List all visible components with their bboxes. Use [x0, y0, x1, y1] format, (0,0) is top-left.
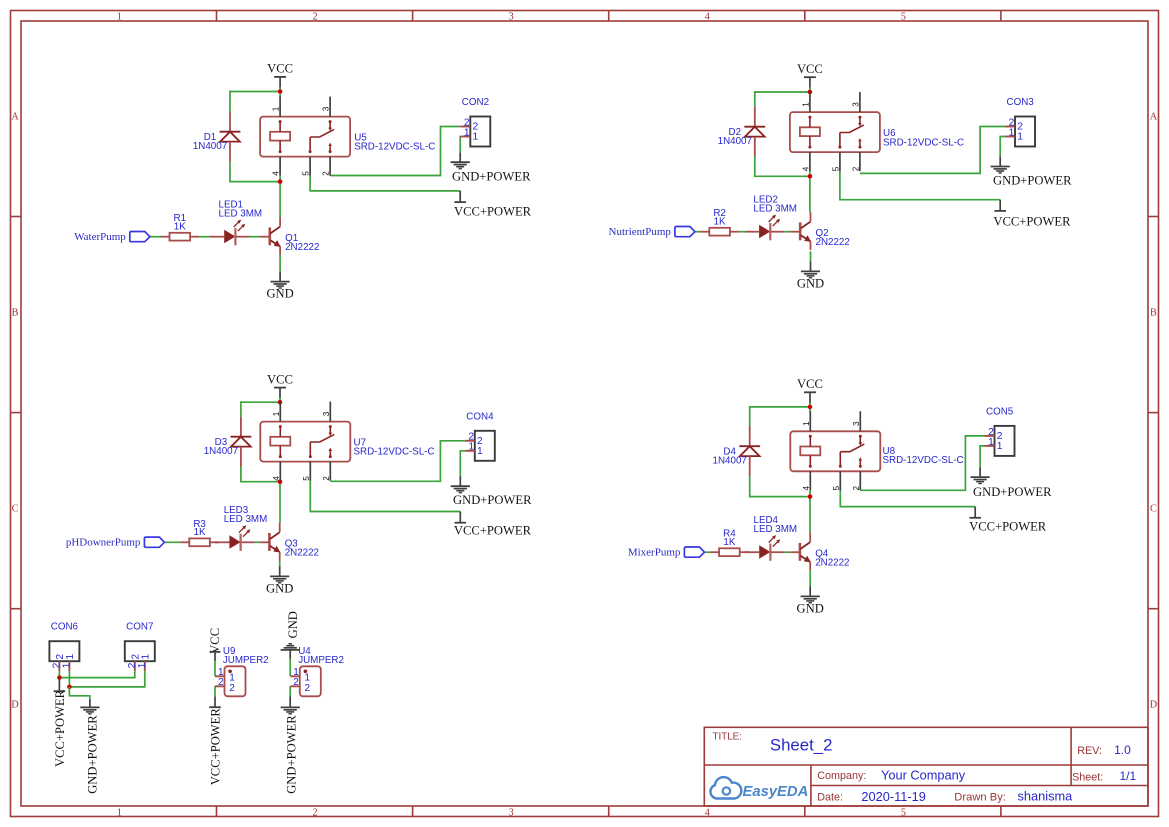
relay U8 pin 5: [832, 471, 841, 490]
junction node U6 pin 4/D2/Q2: [808, 174, 813, 179]
svg-text:GND: GND: [797, 601, 824, 615]
wire VCC node to diode D2 (horizontal): [755, 91, 810, 93]
wire net flag to resistor R1: [150, 236, 161, 238]
wire U8 pin 5 to VCC+POWER: [840, 489, 975, 506]
svg-text:Your Company: Your Company: [881, 767, 966, 782]
svg-text:1: 1: [1009, 127, 1015, 138]
wire U7 pin 5 to VCC+POWER: [310, 480, 460, 512]
svg-text:C: C: [1150, 504, 1157, 515]
svg-text:VCC: VCC: [797, 62, 823, 76]
svg-text:3: 3: [852, 421, 861, 426]
relay U5 pin 4: [272, 157, 281, 176]
jumper U4 JUMPER2: [290, 646, 344, 696]
ground GND (Q3): [266, 566, 293, 595]
svg-text:VCC+POWER: VCC+POWER: [53, 689, 67, 767]
svg-text:pHDownerPump: pHDownerPump: [66, 537, 141, 549]
svg-text:CON5: CON5: [986, 407, 1014, 418]
EasyEDA logo: [710, 777, 808, 800]
wire CON6 pin 1 to CON7 pin 1: [69, 671, 144, 687]
wire Q1 emitter to GND: [279, 255, 281, 272]
svg-text:B: B: [1150, 308, 1157, 319]
junction node VCC/D3: [278, 400, 283, 405]
svg-text:SRD-12VDC-SL-C: SRD-12VDC-SL-C: [883, 138, 964, 149]
svg-text:JUMPER2: JUMPER2: [223, 655, 269, 666]
junction node VCC/D1: [278, 89, 283, 94]
wire VCC node to diode D1 (horizontal): [230, 91, 280, 93]
junction node VCC/D4: [808, 405, 813, 410]
svg-text:GND+POWER: GND+POWER: [453, 493, 532, 507]
wire resistor R2 to LED LED2: [739, 231, 745, 233]
wire VCC stub to U8 pin 1: [809, 401, 811, 412]
net flag GND+POWER (CON3) stem: [999, 157, 1001, 167]
svg-text:CON2: CON2: [462, 97, 489, 108]
power flag GND (U4, rotated text + inverted earth): [281, 611, 300, 659]
svg-text:CON3: CON3: [1007, 97, 1035, 108]
svg-text:VCC: VCC: [797, 377, 823, 391]
relay U6 pin 3: [852, 92, 861, 112]
svg-text:1: 1: [140, 654, 151, 660]
relay U5 labels: [354, 132, 435, 152]
ground GND (Q4): [797, 586, 824, 615]
net flag GND+POWER (CON5) stem: [979, 467, 981, 477]
connector CON4 2-pin header: [465, 411, 495, 460]
relay U5 pin 2: [322, 157, 331, 176]
svg-text:SRD-12VDC-SL-C: SRD-12VDC-SL-C: [354, 142, 435, 153]
junction VCC+POWER node: [57, 675, 62, 680]
svg-text:LED 3MM: LED 3MM: [224, 514, 268, 525]
svg-text:CON4: CON4: [466, 411, 494, 422]
wire diode D1 anode to node: [230, 161, 280, 181]
net flag GND+POWER (CON7 node) stem: [89, 700, 91, 708]
svg-text:4: 4: [802, 166, 811, 171]
wire VCC stub to U6 pin 1: [809, 87, 811, 94]
svg-text:1: 1: [988, 437, 994, 448]
net flag VCC+POWER (U8) stem: [974, 507, 976, 518]
svg-text:1: 1: [272, 411, 281, 416]
wire down to diode D3 cathode: [240, 401, 242, 417]
wire down to diode D2 cathode: [754, 91, 756, 107]
wire diode D2 anode to node: [755, 156, 810, 176]
svg-text:5: 5: [832, 166, 841, 171]
relay U7 labels: [354, 437, 435, 457]
relay U5: [260, 117, 350, 157]
net flag GND+POWER (CON7 node) earth symbol: [80, 707, 99, 713]
wire U6 pin 5 to VCC+POWER: [840, 170, 1000, 200]
power flag VCC (circuit 1): [267, 62, 293, 87]
svg-text:D: D: [1150, 700, 1157, 711]
svg-text:Drawn By:: Drawn By:: [954, 791, 1006, 803]
svg-text:A: A: [11, 112, 19, 123]
svg-text:TITLE:: TITLE:: [713, 731, 742, 742]
svg-text:GND+POWER: GND+POWER: [993, 174, 1072, 188]
svg-text:2020-11-19: 2020-11-19: [861, 789, 926, 804]
power flag VCC (circuit 4): [797, 377, 823, 402]
svg-text:1: 1: [477, 446, 483, 457]
ground GND (Q2): [797, 261, 824, 290]
net flag VCC+POWER (U5) stem: [459, 191, 461, 202]
svg-text:CON7: CON7: [126, 621, 153, 632]
wire VCC stub to U5 pin 1: [279, 86, 281, 98]
wire LED LED4 to Q4 base: [784, 551, 790, 553]
wire to GND+POWER flag: [69, 687, 90, 700]
wire VCC node to diode D4 (horizontal): [750, 406, 810, 408]
wire U8 pin 2 to CON5 pin 2: [860, 436, 984, 490]
wire VCC node to diode D3 (horizontal): [241, 401, 280, 403]
LED LED2 LED 3MM: [745, 194, 797, 240]
svg-text:1: 1: [473, 132, 479, 143]
svg-text:VCC+POWER: VCC+POWER: [454, 524, 532, 538]
resistor R1 1K: [161, 213, 200, 240]
svg-text:VCC+POWER: VCC+POWER: [969, 520, 1047, 534]
svg-text:2: 2: [305, 683, 311, 694]
relay U6 pin 2: [852, 152, 861, 171]
svg-text:LED 3MM: LED 3MM: [754, 524, 798, 535]
wire Q4 emitter to GND: [809, 570, 811, 586]
net flag VCC+POWER (CON6) stem: [58, 678, 60, 691]
svg-text:WaterPump: WaterPump: [74, 231, 126, 243]
svg-text:GND+POWER: GND+POWER: [452, 170, 531, 184]
svg-text:5: 5: [832, 486, 841, 491]
relay U5 pin 5: [302, 157, 311, 176]
power flag VCC (circuit 3): [267, 372, 293, 397]
LED LED1 LED 3MM: [210, 199, 262, 245]
svg-text:SRD-12VDC-SL-C: SRD-12VDC-SL-C: [354, 447, 435, 458]
svg-text:JUMPER2: JUMPER2: [298, 655, 344, 666]
svg-text:GND+POWER: GND+POWER: [284, 715, 298, 794]
relay U7 pin 2: [322, 462, 331, 481]
svg-text:Sheet_2: Sheet_2: [770, 735, 833, 754]
svg-text:LED 3MM: LED 3MM: [219, 209, 263, 220]
relay U6 pin 1: [802, 92, 811, 112]
svg-text:1K: 1K: [723, 537, 735, 548]
relay U5 pin 3: [322, 97, 331, 117]
net flag VCC+POWER (U8) bar symbol: [969, 517, 981, 519]
wire node to transistor Q2 collector: [809, 171, 811, 212]
svg-text:1.0: 1.0: [1114, 743, 1131, 757]
svg-text:VCC: VCC: [267, 62, 293, 76]
diode D1 1N4007: [193, 112, 241, 162]
net flag VCC+POWER (U6) bar symbol: [994, 210, 1006, 212]
svg-text:4: 4: [272, 476, 281, 481]
svg-text:2: 2: [229, 683, 235, 694]
relay U8 pin 2: [852, 471, 861, 490]
relay U8 pin 1: [802, 411, 811, 431]
wire U7 pin 2 to CON4 pin 2: [330, 441, 465, 482]
wire node to transistor Q1 collector: [279, 176, 281, 218]
svg-text:5: 5: [302, 476, 311, 481]
relay U7 pin 3: [322, 402, 331, 422]
wire net flag to resistor R2: [695, 231, 700, 233]
svg-text:4: 4: [802, 486, 811, 491]
wire CON6 pin 2 down: [58, 671, 60, 677]
svg-text:1N4007: 1N4007: [193, 141, 227, 152]
net flag input MixerPump: [628, 546, 705, 558]
net flag GND+POWER (CON3) earth symbol: [991, 167, 1010, 173]
wire VCC stub to U7 pin 1: [279, 397, 281, 403]
relay U7: [260, 422, 350, 462]
wire down to diode D1 cathode: [229, 91, 231, 112]
relay U5 pin 1: [272, 97, 281, 117]
net flag GND+POWER (U4) earth symbol: [281, 707, 300, 713]
svg-text:3: 3: [509, 12, 514, 23]
svg-text:1: 1: [61, 662, 72, 668]
jumper U9 JUMPER2: [215, 646, 269, 696]
power flag VCC (circuit 2): [797, 62, 823, 87]
net flag GND+POWER (CON5) earth symbol: [971, 477, 990, 483]
junction node U5 pin 4/D1/Q1: [278, 179, 283, 184]
net flag VCC+POWER (CON6) bar symbol: [54, 690, 66, 692]
wire net flag to resistor R4: [704, 551, 710, 553]
connector CON3 2-pin header: [1005, 97, 1035, 146]
relay U7 pin 5: [302, 462, 311, 481]
transistor Q4 2N2222 NPN: [790, 533, 849, 571]
relay U8 pin 3: [852, 411, 861, 431]
svg-text:1: 1: [117, 12, 122, 23]
resistor R3 1K: [180, 519, 219, 546]
svg-text:1: 1: [997, 441, 1003, 452]
wire U9 pin 2 down: [214, 686, 216, 696]
wire resistor R3 to LED LED3: [215, 541, 219, 543]
frame row letters: [11, 112, 1157, 711]
wire U5 pin 5 to VCC+POWER: [310, 175, 460, 191]
svg-text:1K: 1K: [194, 527, 206, 538]
svg-text:1: 1: [802, 102, 811, 107]
transistor Q3 2N2222 NPN: [260, 523, 319, 561]
svg-text:VCC+POWER: VCC+POWER: [209, 708, 223, 786]
relay U8 pin 4: [802, 471, 811, 490]
svg-text:2N2222: 2N2222: [285, 548, 319, 559]
wire diode D4 anode to node: [750, 476, 810, 497]
svg-text:1/1: 1/1: [1120, 769, 1137, 783]
wire net flag to resistor R3: [164, 541, 180, 543]
relay U6: [790, 112, 880, 152]
svg-text:A: A: [1150, 112, 1158, 123]
svg-text:2: 2: [293, 677, 299, 688]
net flag GND+POWER (CON4) stem: [459, 476, 461, 486]
wire CON4 pin 1 to GND+POWER: [460, 451, 465, 477]
svg-text:GND+POWER: GND+POWER: [973, 485, 1052, 499]
net flag VCC+POWER (U9) stem: [214, 696, 216, 706]
svg-text:LED 3MM: LED 3MM: [753, 204, 797, 215]
relay U6 pin 5: [832, 152, 841, 171]
svg-text:VCC+POWER: VCC+POWER: [993, 215, 1071, 229]
svg-text:MixerPump: MixerPump: [628, 546, 681, 558]
svg-text:3: 3: [852, 102, 861, 107]
diode D2 1N4007: [718, 107, 766, 157]
diode D4 1N4007: [713, 426, 761, 476]
svg-text:1: 1: [137, 662, 148, 668]
svg-text:GND: GND: [266, 581, 293, 595]
wire LED LED2 to Q2 base: [784, 231, 790, 233]
svg-text:2: 2: [852, 166, 861, 171]
relay U8: [790, 431, 880, 471]
svg-text:SRD-12VDC-SL-C: SRD-12VDC-SL-C: [883, 455, 964, 466]
svg-text:VCC+POWER: VCC+POWER: [454, 205, 532, 219]
svg-text:1: 1: [464, 127, 470, 138]
svg-text:1N4007: 1N4007: [713, 456, 747, 467]
wire U4 pin 2 down: [289, 686, 291, 696]
svg-text:2: 2: [218, 677, 224, 688]
svg-text:GND: GND: [797, 276, 824, 290]
svg-text:2: 2: [313, 12, 318, 23]
svg-text:D: D: [11, 700, 18, 711]
svg-text:VCC: VCC: [208, 628, 222, 654]
LED LED3 LED 3MM: [215, 505, 267, 551]
svg-text:GND+POWER: GND+POWER: [85, 715, 99, 794]
relay U6 labels: [883, 128, 964, 148]
net flag VCC+POWER (U7) stem: [459, 512, 461, 523]
wire CON2 pin 1 to GND+POWER: [459, 137, 461, 153]
frame column numbers: [117, 12, 906, 819]
svg-text:B: B: [12, 308, 19, 319]
ground GND (Q1): [266, 271, 293, 300]
wire resistor R4 to LED LED4: [745, 551, 749, 553]
svg-text:5: 5: [901, 12, 906, 23]
svg-text:2N2222: 2N2222: [285, 242, 319, 253]
svg-text:4: 4: [705, 12, 710, 23]
LED LED4 LED 3MM: [745, 515, 797, 561]
svg-text:3: 3: [322, 411, 331, 416]
wire CON5 pin 1 to GND+POWER: [980, 446, 984, 467]
svg-text:4: 4: [272, 171, 281, 176]
svg-text:1: 1: [65, 654, 76, 660]
net flag VCC+POWER (U6) stem: [999, 200, 1001, 211]
wire CON6 pin 2 to CON7 pin 2: [59, 671, 134, 677]
svg-text:1: 1: [468, 442, 474, 453]
relay U7 pin 4: [272, 462, 281, 481]
svg-text:1K: 1K: [714, 216, 726, 227]
svg-text:3: 3: [322, 106, 331, 111]
net flag VCC+POWER (U9) bar symbol: [209, 706, 221, 708]
relay U8 labels: [883, 446, 964, 466]
wire node to transistor Q3 collector: [279, 481, 281, 523]
wire CON6 pin 1 down: [68, 671, 70, 687]
wire Q2 emitter to GND: [810, 251, 812, 261]
svg-text:4: 4: [705, 807, 710, 818]
connector CON2 2-pin header: [460, 97, 490, 146]
svg-text:NutrientPump: NutrientPump: [609, 226, 672, 238]
svg-text:shanisma: shanisma: [1018, 789, 1074, 804]
junction GND+POWER node: [67, 685, 72, 690]
connector CON5 2-pin header: [985, 407, 1015, 456]
net flag GND+POWER (CON4) earth symbol: [451, 486, 470, 492]
svg-text:1: 1: [1017, 132, 1023, 143]
svg-text:2: 2: [322, 476, 331, 481]
svg-text:1: 1: [272, 106, 281, 111]
net flag input WaterPump: [74, 231, 150, 243]
svg-text:1K: 1K: [174, 221, 186, 232]
title block frame: [704, 727, 1148, 806]
wire U6 pin 2 to CON3 pin 2: [860, 127, 1005, 174]
svg-text:1: 1: [802, 421, 811, 426]
svg-text:Sheet:: Sheet:: [1072, 771, 1103, 783]
svg-text:2: 2: [313, 807, 318, 818]
net flag VCC+POWER (U7) bar symbol: [455, 522, 467, 524]
svg-text:Date:: Date:: [817, 791, 843, 803]
wire diode D3 anode to node: [241, 466, 280, 482]
net flag GND+POWER (CON2) stem: [459, 152, 461, 162]
svg-text:5: 5: [302, 171, 311, 176]
wire LED LED3 to Q3 base: [255, 541, 260, 543]
relay U7 pin 1: [272, 402, 281, 422]
wire VCC to U9 pin 1: [214, 661, 216, 676]
net flag VCC+POWER (U5) bar symbol: [454, 201, 466, 203]
wire down to diode D4 cathode: [749, 406, 751, 427]
power flag VCC (U9, rotated text): [208, 628, 222, 661]
wire node to transistor Q4 collector: [809, 490, 811, 532]
transistor Q1 2N2222 NPN: [260, 217, 319, 255]
wire Q3 emitter to GND: [279, 561, 281, 567]
svg-text:5: 5: [901, 807, 906, 818]
resistor R4 1K: [710, 529, 749, 556]
svg-text:1N4007: 1N4007: [718, 136, 752, 147]
svg-text:REV:: REV:: [1077, 745, 1102, 757]
connector CON6 2-pin header: [49, 621, 79, 671]
wire resistor R1 to LED LED1: [199, 236, 210, 238]
title block texts: [713, 731, 1137, 803]
junction node U7 pin 4/D3/Q3: [278, 479, 283, 484]
transistor Q2 2N2222 NPN: [791, 212, 850, 250]
relay U6 pin 4: [802, 152, 811, 171]
net flag input pHDownerPump: [66, 537, 165, 549]
svg-text:GND: GND: [286, 611, 300, 638]
junction node VCC/D2: [808, 90, 813, 95]
net flag GND+POWER (U4) stem: [289, 696, 291, 707]
wire CON3 pin 1 to GND+POWER: [1000, 137, 1005, 157]
svg-text:1N4007: 1N4007: [204, 446, 238, 457]
svg-text:GND: GND: [266, 287, 293, 301]
svg-text:2N2222: 2N2222: [815, 558, 849, 569]
wire LED LED1 to Q1 base: [249, 236, 260, 238]
svg-text:Company:: Company:: [817, 770, 866, 782]
net flag input NutrientPump: [609, 226, 695, 238]
svg-text:CON6: CON6: [51, 621, 79, 632]
svg-text:VCC: VCC: [267, 372, 293, 386]
wire GND to U4 pin 1: [289, 659, 291, 676]
svg-text:3: 3: [509, 807, 514, 818]
net flag GND+POWER (CON2) earth symbol: [451, 162, 470, 168]
diode D3 1N4007: [204, 417, 252, 467]
connector CON7 2-pin header: [125, 621, 155, 671]
wire U5 pin 2 to CON2 pin 2: [330, 127, 460, 176]
junction node U8 pin 4/D4/Q4: [808, 494, 813, 499]
svg-text:1: 1: [117, 807, 122, 818]
svg-text:2N2222: 2N2222: [816, 237, 850, 248]
svg-text:C: C: [12, 504, 19, 515]
svg-text:EasyEDA: EasyEDA: [743, 784, 809, 800]
resistor R2 1K: [700, 208, 739, 235]
svg-text:2: 2: [322, 171, 331, 176]
svg-text:2: 2: [852, 486, 861, 491]
